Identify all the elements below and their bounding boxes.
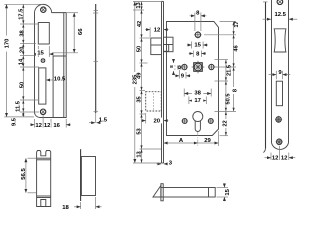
svg-text:20: 20 [154, 119, 161, 125]
svg-text:11.5: 11.5 [15, 101, 21, 112]
svg-text:8: 8 [196, 11, 200, 17]
svg-text:12: 12 [154, 27, 161, 33]
svg-text:38: 38 [194, 91, 201, 97]
svg-text:50: 50 [136, 46, 142, 52]
svg-text:12: 12 [272, 156, 279, 162]
svg-text:18: 18 [62, 205, 69, 209]
svg-text:46: 46 [233, 45, 239, 51]
svg-text:53: 53 [137, 128, 143, 134]
svg-text:17: 17 [194, 98, 201, 104]
svg-text:17: 17 [234, 21, 240, 27]
svg-text:21.5: 21.5 [227, 65, 233, 76]
svg-text:29: 29 [204, 138, 211, 144]
svg-text:1.5: 1.5 [99, 118, 108, 124]
svg-text:12: 12 [35, 123, 42, 129]
svg-text:56.5: 56.5 [21, 168, 27, 180]
svg-text:12.5: 12.5 [274, 12, 286, 18]
svg-text:8: 8 [169, 65, 174, 68]
svg-text:38: 38 [19, 30, 25, 36]
svg-text:49: 49 [136, 73, 142, 79]
svg-text:10.5: 10.5 [54, 76, 66, 82]
svg-text:15: 15 [225, 188, 231, 195]
svg-text:12: 12 [44, 123, 51, 129]
svg-text:15: 15 [37, 50, 44, 56]
svg-text:16: 16 [53, 123, 60, 129]
svg-text:42: 42 [137, 21, 143, 27]
svg-text:8: 8 [232, 89, 238, 92]
svg-text:50: 50 [19, 82, 25, 88]
svg-text:15: 15 [194, 43, 201, 49]
svg-text:9.5: 9.5 [11, 118, 17, 126]
svg-text:35: 35 [136, 96, 142, 102]
svg-text:22: 22 [223, 120, 229, 126]
svg-text:170: 170 [4, 38, 10, 49]
svg-text:17.5: 17.5 [18, 9, 24, 20]
svg-text:3: 3 [169, 161, 173, 167]
svg-text:12: 12 [281, 156, 288, 162]
svg-text:50.5: 50.5 [226, 93, 232, 104]
svg-text:A: A [179, 138, 184, 144]
svg-text:66: 66 [78, 28, 84, 35]
